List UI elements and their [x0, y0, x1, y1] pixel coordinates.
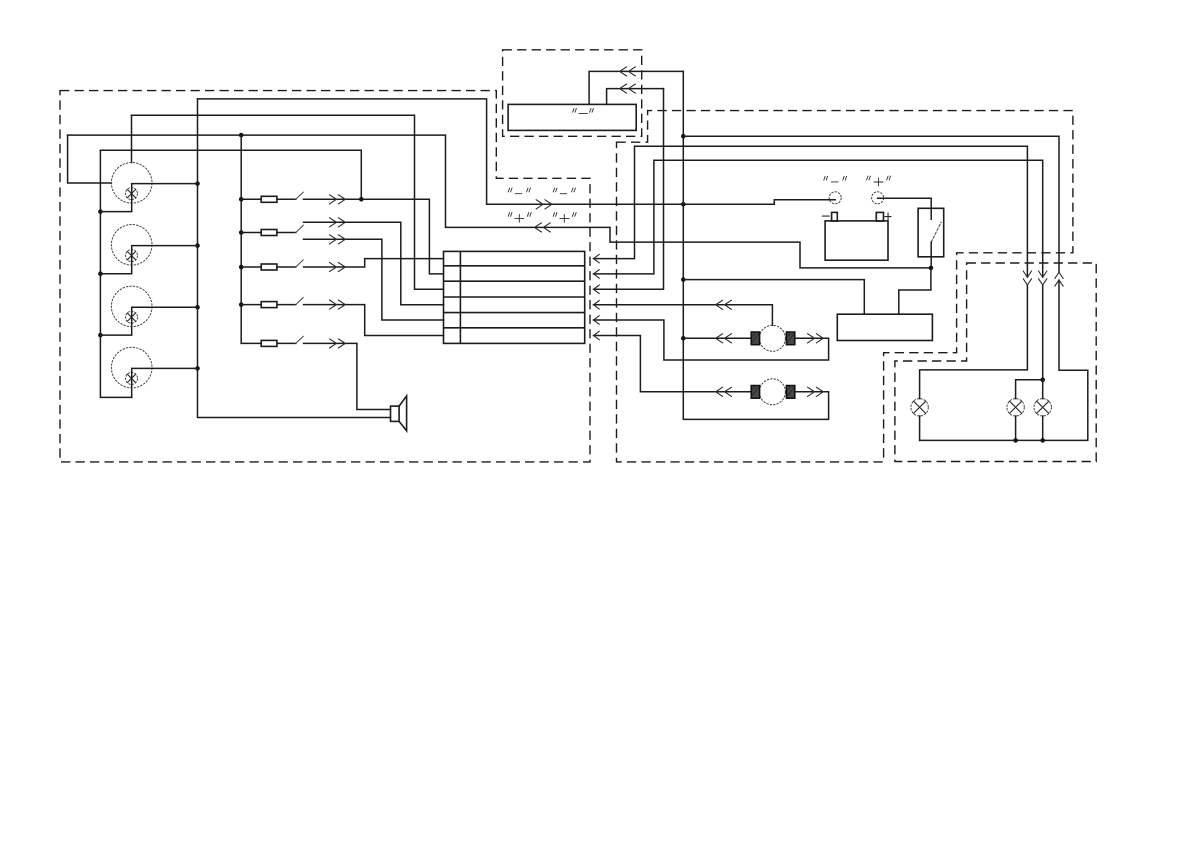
arrow chevron into connector row4	[594, 301, 600, 310]
arrow chevrons on S2 output a	[329, 218, 345, 227]
arrow chevrons on S5 output	[329, 339, 345, 348]
wire: connector row5 to motor M1 armature return	[594, 320, 829, 360]
fuse F3	[241, 264, 296, 270]
dashed enclosure: right lamp group	[895, 263, 1096, 462]
arrow chevron into connector row2	[594, 270, 600, 279]
wire: connector row3 to unit U1 pin2 riser	[594, 89, 664, 290]
arrow chevrons on U1 pin1 wire	[620, 67, 636, 76]
fuse F1	[241, 196, 296, 202]
headlamp HL3	[100, 286, 197, 335]
node: right bus to HL2	[195, 243, 200, 248]
right lamp EL1	[911, 399, 928, 416]
wire: S2 output b to connector row5	[304, 239, 444, 320]
node: bus to right lamp return line	[681, 134, 686, 139]
wire: S1 output to connector row2	[304, 199, 444, 274]
arrow chevron into connector row5	[594, 316, 600, 325]
switch S4 blade	[296, 297, 304, 304]
node: right lamp EL3 to common return	[1040, 438, 1045, 443]
label "minus" above battery clamp	[824, 176, 847, 182]
wire: unit U1 pin2 up and right	[607, 89, 664, 105]
right lamp EL2	[1007, 399, 1024, 416]
battery GB1	[822, 212, 891, 260]
wire: left frame drop to headlamp HL1	[68, 135, 112, 183]
node: feeder bus to F4	[239, 302, 244, 307]
arrow chevrons on motor M2 right lead	[808, 387, 824, 396]
node: plus rail to fuse feeder bus	[239, 133, 244, 138]
wire: headlamp supply from fuse F1 output	[100, 150, 361, 199]
arrow chevrons on S1 output	[329, 195, 345, 204]
wire: S3 output to connector row1	[304, 259, 444, 267]
wire: connector row1 to right lamp feed (line A)	[594, 146, 1028, 440]
switch S1 blade	[296, 192, 304, 199]
headlamp HL1	[100, 163, 197, 212]
node: bus to HL3 return	[98, 333, 103, 338]
right lamp EL3	[1034, 399, 1051, 416]
arrow chevrons on S2 output b	[329, 235, 345, 244]
arrow chevrons on S4 output	[329, 300, 345, 309]
arrow chevrons on motor M1 field wire	[716, 300, 732, 309]
wire: right lamp return line to bus (line C)	[683, 136, 1088, 440]
fuse F5	[241, 340, 296, 346]
node: right bus to HL4	[195, 366, 200, 371]
fuse F4	[241, 302, 296, 308]
main switch S6	[918, 208, 944, 268]
label "plus" above battery clamp	[867, 176, 891, 186]
node: bus to motor M1 left lead	[681, 336, 686, 341]
node: feeder bus to F3	[239, 265, 244, 270]
node: minus rail to vertical bus	[681, 202, 686, 207]
wire: connector row4 to motor M1 field	[594, 305, 773, 326]
headlamp HL2	[100, 225, 197, 274]
node: bus to regulator feed	[681, 277, 686, 282]
wire: headlamp feeder bus (left vertical)	[100, 150, 131, 397]
battery clamp terminal minus	[829, 192, 841, 204]
battery clamp terminal plus	[872, 192, 884, 204]
dashed enclosure: left equipment group	[60, 91, 590, 462]
arrow chevrons down on right lamp feed A	[1023, 271, 1031, 285]
wire: plus rail from left frame to main switch node	[68, 135, 931, 268]
motor M2	[751, 379, 795, 405]
connector block XP1	[444, 251, 585, 343]
wire: connector row2 to right lamp feed (line B)	[594, 160, 1043, 440]
arrow chevrons on plus rail	[535, 223, 551, 232]
arrow chevrons up on right lamp return	[1055, 272, 1063, 286]
label "minus" on unit U1	[573, 108, 594, 113]
dashed enclosure: top-center unit box	[503, 50, 642, 137]
node: bus to HL1 return	[98, 209, 103, 214]
node: S1 output to headlamp supply	[359, 197, 364, 202]
wire: plus clamp to main switch	[878, 198, 932, 219]
arrow chevron into connector row3	[594, 285, 600, 294]
node: feeder bus to F2	[239, 230, 244, 235]
wire: fuse feeder bus vertical	[240, 135, 242, 343]
node: right bus to HL3	[195, 305, 200, 310]
node: switch output / plus rail / regulator	[929, 266, 934, 271]
node: feeder bus to F1	[239, 197, 244, 202]
wire: switch node down to regulator	[899, 268, 931, 314]
regulator unit A1	[837, 314, 932, 340]
wire: motor M1 left lead from bus	[683, 337, 751, 339]
arrow chevrons on U1 pin2 wire	[620, 84, 636, 93]
wire: HL1 top feed to connector row3	[132, 115, 444, 289]
node: feed B branch to lamp EL2	[1040, 378, 1045, 383]
node: bus to HL2 return	[98, 271, 103, 276]
wire: connector row6 to motor M2 left lead	[594, 336, 752, 392]
wire: regulator feed from bus	[683, 280, 864, 315]
arrow chevrons on S3 output	[329, 262, 345, 271]
wire: headlamp right bus vertical to horn	[198, 99, 391, 418]
wire: S5 output to horn	[304, 343, 391, 409]
headlamp HL4	[111, 347, 197, 397]
wire: S4 output to connector row6	[304, 305, 444, 336]
unit U1 body rectangle	[508, 104, 636, 130]
wire: main minus bus vertical	[683, 71, 828, 419]
label "plus" left on plus rail	[508, 213, 531, 223]
arrow chevrons on motor M1 left lead	[716, 334, 732, 343]
horn / speaker B1	[391, 396, 407, 431]
arrow chevron into connector row6	[594, 331, 600, 340]
switch S3 blade	[296, 260, 304, 267]
arrow chevrons down on right lamp feed B	[1039, 271, 1047, 285]
wire: unit U1 pin1 up and right to node bus	[589, 71, 683, 104]
label "minus" left on minus rail	[508, 188, 530, 194]
switch S2 blade	[296, 225, 304, 232]
arrow chevrons on motor M1 right lead	[808, 334, 824, 343]
wire: branch to lamp EL2	[1016, 380, 1043, 441]
wire: HL1 top feed	[131, 115, 133, 162]
arrow chevron into connector row1	[594, 254, 600, 263]
wire: minus rail from headlamp bus top to battery clamp	[198, 99, 836, 204]
wire: S2 output a to connector row4	[304, 222, 444, 304]
switch S5 blade	[296, 336, 304, 343]
arrow chevrons on motor M2 left lead	[716, 387, 732, 396]
label "minus" right on minus rail	[553, 188, 575, 194]
node: right bus to HL1	[195, 181, 200, 186]
label "plus" right on plus rail	[553, 213, 576, 223]
fuse F2	[241, 230, 296, 236]
node: right lamp EL2 to common return	[1013, 438, 1018, 443]
dashed enclosure: middle-right group (merged with top-right wiring area)	[617, 111, 1073, 462]
arrow chevrons on minus rail	[536, 200, 552, 209]
motor M1	[751, 325, 795, 351]
